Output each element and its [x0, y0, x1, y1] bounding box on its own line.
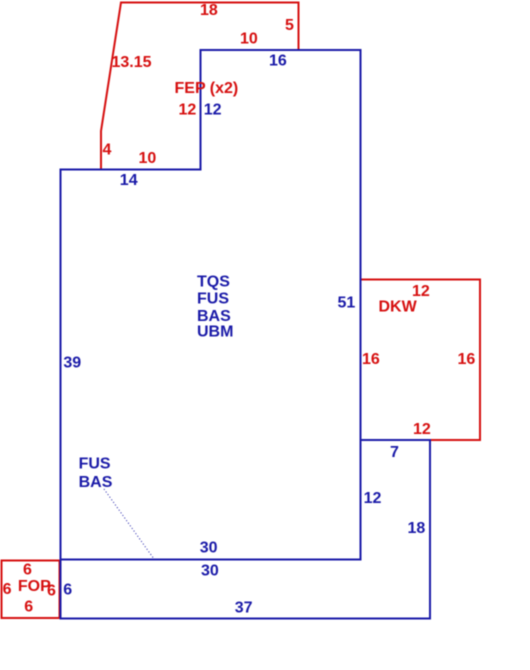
svg-text:12: 12: [364, 490, 382, 507]
svg-text:18: 18: [408, 520, 426, 537]
svg-text:16: 16: [362, 351, 380, 368]
svg-text:6: 6: [24, 599, 33, 616]
svg-text:10: 10: [240, 31, 258, 48]
svg-text:10: 10: [139, 150, 157, 167]
svg-text:12: 12: [204, 102, 222, 119]
svg-text:TQS: TQS: [197, 274, 230, 291]
svg-text:7: 7: [390, 444, 399, 461]
FOP porch outline (red, bottom-left): [2, 561, 60, 619]
DKW outline (red, right): [361, 280, 481, 441]
svg-text:14: 14: [120, 172, 138, 189]
svg-text:6: 6: [47, 583, 56, 600]
svg-text:16: 16: [458, 351, 476, 368]
svg-text:39: 39: [63, 355, 81, 372]
svg-text:BAS: BAS: [79, 474, 113, 491]
svg-text:FEP (x2): FEP (x2): [175, 80, 239, 97]
svg-text:6: 6: [3, 581, 12, 598]
svg-text:5: 5: [285, 17, 294, 34]
svg-text:FUS: FUS: [79, 456, 111, 473]
dotted leader line from FUS/BAS label: [104, 489, 154, 559]
FEP porch outline (red, top): [101, 3, 299, 170]
svg-text:6: 6: [63, 582, 72, 599]
svg-text:30: 30: [200, 540, 218, 557]
svg-text:12: 12: [413, 421, 431, 438]
svg-text:16: 16: [269, 53, 287, 70]
svg-text:51: 51: [338, 295, 356, 312]
svg-text:12: 12: [179, 102, 197, 119]
svg-text:BAS: BAS: [197, 308, 231, 325]
svg-text:18: 18: [200, 2, 218, 19]
svg-text:UBM: UBM: [197, 324, 233, 341]
svg-text:12: 12: [412, 283, 430, 300]
svg-text:37: 37: [235, 600, 253, 617]
svg-text:4: 4: [103, 142, 112, 159]
svg-text:13.15: 13.15: [112, 54, 152, 71]
svg-text:DKW: DKW: [379, 299, 418, 316]
svg-text:6: 6: [23, 562, 32, 579]
lower addition outline (blue, bottom-right): [61, 440, 431, 619]
main dwelling outline TQS/FUS/BAS/UBM (blue): [61, 50, 361, 560]
svg-text:FUS: FUS: [197, 291, 229, 308]
svg-text:30: 30: [201, 563, 219, 580]
